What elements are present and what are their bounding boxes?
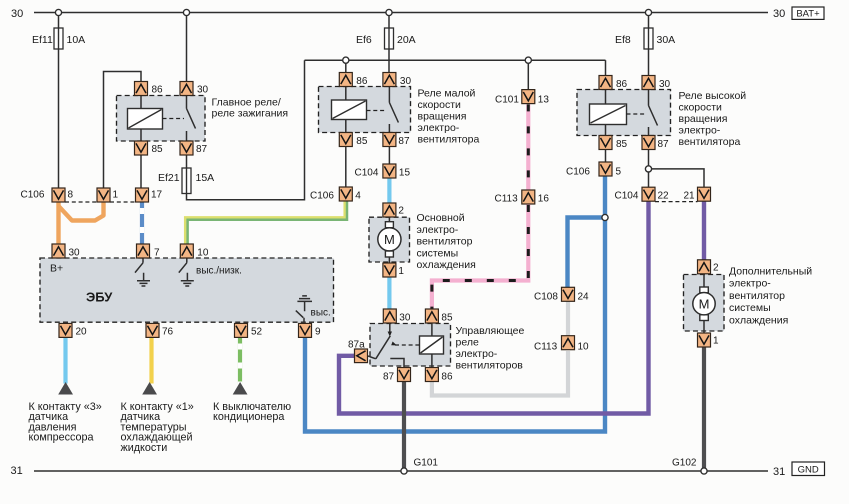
bus 31 bottom [34, 470, 768, 472]
pin 86 control relay [425, 368, 453, 383]
svg-text:30: 30 [197, 85, 209, 96]
svg-text:30A: 30A [657, 34, 676, 46]
svg-text:4: 4 [355, 191, 361, 202]
svg-text:86: 86 [616, 79, 628, 90]
wire bus30 to main relay 30 [186, 13, 188, 82]
wire bus30 to Ef8 [648, 13, 650, 29]
connector C108 pin 24 [534, 287, 589, 302]
svg-text:9: 9 [315, 327, 321, 338]
svg-text:системы: системы [729, 302, 771, 314]
svg-text:85: 85 [152, 144, 164, 155]
fan main motor [378, 217, 401, 263]
relay low-speed contact [389, 87, 398, 133]
wire Ef8 to high relay 30 [648, 49, 650, 76]
arrow to AC switch [233, 382, 248, 395]
wire junction to C104-21 [649, 169, 705, 187]
wire bus30 to Ef6 [388, 13, 390, 29]
svg-text:электро-: электро- [456, 348, 498, 360]
wire yellow ECU pin76 to arrow [149, 338, 153, 384]
arrow to compressor pressure sensor [58, 382, 73, 395]
svg-text:52: 52 [251, 327, 263, 338]
wire pink-black C101-13 to C113-16 [526, 104, 530, 190]
svg-text:C106: C106 [566, 167, 590, 178]
node G102 [701, 468, 707, 474]
svg-text:охлаждения: охлаждения [729, 314, 788, 326]
svg-text:реле зажигания: реле зажигания [212, 108, 289, 120]
svg-text:электро-: электро- [418, 122, 460, 134]
label main fan name [417, 212, 476, 271]
svg-text:M: M [699, 296, 710, 311]
pin 30 low relay [383, 73, 412, 88]
label to coolant temp sensor [121, 401, 194, 454]
wire low relay 87 to C104-15 [388, 147, 390, 165]
fuse Ef21 15A [158, 168, 214, 194]
node high relay 87 split [645, 166, 651, 172]
svg-text:87: 87 [196, 144, 208, 155]
label aux fan name [729, 266, 812, 327]
ECU pin 30 [52, 244, 80, 259]
svg-text:Реле малой: Реле малой [418, 88, 476, 100]
svg-text:87: 87 [383, 372, 395, 383]
svg-text:M: M [384, 232, 395, 247]
connector C104 dashed link pins 22-21 [655, 201, 698, 203]
relay main contact [187, 96, 196, 142]
svg-text:21: 21 [684, 191, 696, 202]
wire main relay 85 to C106-17 [140, 155, 142, 188]
ECU pin 7 [137, 244, 161, 259]
svg-text:C108: C108 [534, 292, 558, 303]
arrow to coolant temp sensor [142, 382, 157, 395]
BAT+ box [792, 7, 824, 20]
label to compressor sensor [29, 401, 102, 444]
svg-text:20: 20 [76, 327, 88, 338]
relay main (Главное реле) box [117, 96, 206, 142]
svg-text:20A: 20A [397, 34, 416, 46]
relay main coil-armature dashed link [163, 118, 185, 120]
svg-text:22: 22 [658, 191, 670, 202]
svg-text:вращения: вращения [679, 113, 728, 125]
svg-text:10: 10 [578, 342, 590, 353]
svg-text:G101: G101 [414, 458, 439, 469]
wire Ef6 to low relay 30 [388, 49, 390, 73]
wire Ef21 to second bus [187, 60, 305, 200]
connector C106 pin 8 [21, 188, 74, 202]
svg-text:30: 30 [400, 76, 412, 87]
connector C104 pin 22 [615, 187, 670, 201]
svg-text:15: 15 [399, 168, 411, 179]
wire blue-white C106-17 to ECU pin7 [140, 202, 144, 244]
relay high-speed dashed link [627, 113, 646, 115]
pin 30 main relay [180, 82, 209, 96]
connector C104 pin 15 [355, 164, 411, 179]
svg-text:компрессора: компрессора [29, 432, 94, 444]
svg-text:BAT+: BAT+ [796, 9, 820, 20]
svg-text:вентилятора: вентилятора [418, 134, 480, 146]
fan aux (Дополнительный) box [684, 275, 725, 332]
wire pink-black C113-16 to control relay 85 [432, 204, 528, 310]
pin 85 control relay [425, 309, 453, 324]
svg-text:скорости: скорости [418, 99, 462, 111]
svg-text:10A: 10A [67, 34, 86, 46]
pin 87 high relay [642, 136, 669, 151]
node bus30 at main relay [183, 9, 189, 15]
pin 86 main relay [135, 82, 164, 96]
svg-text:Ef11: Ef11 [32, 34, 53, 46]
svg-text:Ef6: Ef6 [356, 34, 372, 46]
node bus30 at Ef11 [55, 9, 61, 15]
ECU pin 20 [59, 323, 87, 337]
wire green-yellow C106-4 to ECU pin10 [185, 202, 347, 245]
svg-text:электро-: электро- [417, 224, 459, 236]
svg-text:реле: реле [456, 337, 479, 349]
svg-text:C106: C106 [310, 191, 334, 202]
wire main relay 87 to Ef21 [186, 155, 188, 168]
svg-text:85: 85 [616, 139, 628, 150]
wire orange C106-8 to ECU B+ [56, 202, 60, 244]
wire bus2 to high relay 86 [605, 60, 607, 75]
node bus30 at Ef8 [645, 9, 651, 15]
node bus30 at Ef6 [386, 9, 392, 15]
svg-text:30: 30 [69, 248, 81, 259]
wire bus2 to C101-13 [527, 60, 529, 89]
fuse Ef8 30A [615, 28, 675, 49]
pin 85 main relay [135, 141, 164, 155]
svg-text:17: 17 [151, 190, 163, 201]
fuse Ef11 10A [32, 28, 85, 49]
relay control coil-armature dashed link [395, 344, 420, 346]
fan aux motor [693, 273, 715, 334]
ECU pin9 internal switch-to-inverted-ground [296, 296, 312, 322]
svg-text:8: 8 [68, 190, 74, 201]
svg-text:выс.: выс. [311, 308, 331, 319]
svg-text:вентилятора: вентилятора [679, 136, 741, 148]
svg-text:87: 87 [398, 136, 410, 147]
pin 30 control relay [383, 309, 411, 324]
ECU pin 76 [146, 323, 174, 337]
ECU pin7 internal switch-to-ground [135, 258, 150, 286]
svg-text:Реле высокой: Реле высокой [679, 90, 747, 102]
pin 1 main fan [383, 263, 405, 277]
svg-text:2: 2 [398, 206, 404, 217]
pin 85 low relay [339, 133, 368, 148]
pin 87 low relay [383, 133, 410, 148]
svg-text:1: 1 [398, 266, 404, 277]
relay control (Управляющее реле) box [370, 324, 451, 367]
wire cyan C104-15 to main fan pin2 [387, 178, 391, 204]
svg-text:C101: C101 [495, 95, 519, 106]
wire darkgray control relay 87 to G101 [402, 381, 406, 470]
node bus2 at C101 [525, 57, 531, 63]
pin 87 main relay [180, 141, 208, 155]
svg-text:1: 1 [713, 336, 719, 347]
wire cyan main fan pin1 to control relay 30 [387, 277, 391, 310]
svg-text:вентилятор: вентилятор [729, 290, 785, 302]
svg-text:вентилятор: вентилятор [417, 236, 473, 248]
svg-text:13: 13 [538, 95, 550, 106]
wire purple control relay 87a loop to C104-22 [339, 202, 649, 414]
svg-text:30: 30 [659, 79, 671, 90]
svg-text:Дополнительный: Дополнительный [729, 266, 812, 278]
wire cyan ECU pin20 to arrow [63, 338, 67, 384]
svg-text:1: 1 [113, 190, 119, 201]
svg-text:вращения: вращения [418, 111, 467, 123]
connector C106 pin 1 [97, 188, 119, 202]
svg-text:30: 30 [399, 313, 411, 324]
label control relay name [456, 325, 525, 372]
svg-text:C104: C104 [615, 191, 639, 202]
svg-text:30: 30 [11, 8, 23, 20]
wire green-white ECU pin52 to arrow [238, 338, 242, 384]
connector C106 dashed link pins 8-1-17 [65, 201, 136, 203]
wire darkgray aux fan pin1 to G102 [702, 346, 706, 470]
fuse Ef6 20A [356, 28, 416, 49]
GND box [792, 462, 825, 476]
connector C106 pin 4 [310, 187, 361, 202]
svg-text:вентиляторов: вентиляторов [456, 360, 524, 372]
svg-text:кондиционера: кондиционера [213, 411, 284, 423]
pin 1 aux fan [698, 333, 720, 347]
relay high-speed box [577, 90, 671, 136]
wire high relay 85 to C106-5 [605, 150, 607, 163]
ECU pin10 internal switch-to-ground [179, 258, 194, 286]
node G101 [401, 468, 407, 474]
pin 30 high relay [642, 76, 671, 91]
pin 86 low relay [339, 73, 368, 88]
connector C101 pin 13 [495, 90, 549, 106]
svg-text:Управляющее: Управляющее [456, 325, 525, 337]
connector C104 pin 21 [684, 187, 711, 201]
svg-text:15A: 15A [196, 172, 215, 184]
svg-text:C113: C113 [495, 194, 519, 205]
svg-text:86: 86 [152, 85, 164, 96]
wire gray control relay 86 to C113-10 [432, 351, 568, 396]
svg-text:охлаждения: охлаждения [417, 259, 476, 271]
wire blue ECU pin9 loop to C106-5 [305, 177, 605, 432]
svg-text:системы: системы [417, 247, 459, 259]
ECU pin 10 [180, 244, 209, 259]
wire blue branch node to C108-24 [568, 218, 606, 288]
svg-text:скорости: скорости [679, 102, 723, 114]
svg-text:31: 31 [11, 465, 23, 477]
second bus [305, 59, 606, 61]
relay high-speed contact [649, 90, 658, 136]
svg-text:87a: 87a [348, 340, 365, 351]
svg-text:16: 16 [538, 194, 550, 205]
pin 85 high relay [599, 136, 628, 151]
svg-text:7: 7 [154, 248, 160, 259]
fan main (Основной) box [369, 217, 410, 262]
pin 87 control relay [383, 368, 411, 383]
connector C113 pin 16 [495, 190, 550, 205]
pin 2 aux fan [698, 260, 720, 274]
connector C113 pin 10 [534, 336, 589, 353]
svg-text:электро-: электро- [729, 278, 771, 290]
svg-text:жидкости: жидкости [121, 442, 168, 454]
svg-text:85: 85 [356, 136, 368, 147]
node blue wire split [602, 214, 608, 220]
svg-text:ЭБУ: ЭБУ [86, 290, 113, 305]
bus 30 top [34, 12, 768, 14]
label to AC switch [213, 401, 291, 423]
svg-text:10: 10 [197, 248, 209, 259]
wire orange branch C106-1 join [59, 202, 104, 221]
pin 87a control relay [348, 340, 368, 363]
svg-text:24: 24 [578, 292, 590, 303]
relay high-speed coil [590, 90, 627, 136]
svg-text:2: 2 [713, 263, 719, 274]
svg-text:Ef21: Ef21 [158, 172, 180, 184]
wire low relay 85 to C106-4 [345, 147, 347, 188]
wire bus2 to low relay 86 [345, 60, 347, 72]
label low relay name [418, 88, 480, 146]
svg-text:Ef8: Ef8 [615, 34, 631, 46]
relay control contact and armature [368, 323, 404, 368]
svg-text:C113: C113 [534, 342, 558, 353]
wire Ef11 to C106-8 [58, 49, 60, 188]
wire bus30 to Ef11 [58, 13, 60, 29]
relay low-speed box [319, 87, 411, 133]
svg-text:5: 5 [616, 167, 622, 178]
relay low-speed dashed link [367, 110, 387, 112]
relay low-speed coil [332, 87, 367, 133]
pin 86 high relay [599, 76, 628, 91]
wire high relay 87 to junction to C104-22 [648, 150, 650, 188]
svg-text:выс./низк.: выс./низк. [196, 266, 242, 277]
svg-text:87: 87 [658, 139, 670, 150]
relay main coil [128, 96, 163, 142]
ECU (ЭБУ) box [40, 258, 334, 322]
svg-text:электро-: электро- [679, 125, 721, 137]
wire main relay 86 up-left to C106-1 [104, 72, 142, 189]
svg-text:85: 85 [441, 313, 453, 324]
relay control coil [420, 323, 444, 368]
connector C106 pin 17 [136, 188, 163, 202]
svg-text:86: 86 [356, 76, 368, 87]
ECU pin 9 [299, 323, 322, 337]
wire purple C104-21 to aux fan pin2 [702, 202, 706, 261]
svg-text:30: 30 [773, 8, 785, 20]
svg-text:Основной: Основной [417, 212, 465, 224]
node bus2 at low relay 86 [343, 57, 349, 63]
svg-text:G102: G102 [672, 458, 697, 469]
svg-text:76: 76 [162, 327, 174, 338]
svg-text:86: 86 [441, 372, 453, 383]
svg-text:GND: GND [798, 464, 819, 475]
ECU pin 52 [235, 323, 263, 337]
label high relay name [679, 90, 747, 148]
connector C106 pin 5 [566, 162, 622, 178]
label main relay name [212, 97, 289, 120]
svg-text:C106: C106 [21, 190, 45, 201]
svg-text:C104: C104 [355, 168, 379, 179]
svg-text:B+: B+ [50, 263, 63, 275]
svg-text:31: 31 [773, 466, 785, 478]
pin 2 main fan [383, 203, 405, 217]
wire gray C108-24 to C113-10 [566, 302, 570, 337]
